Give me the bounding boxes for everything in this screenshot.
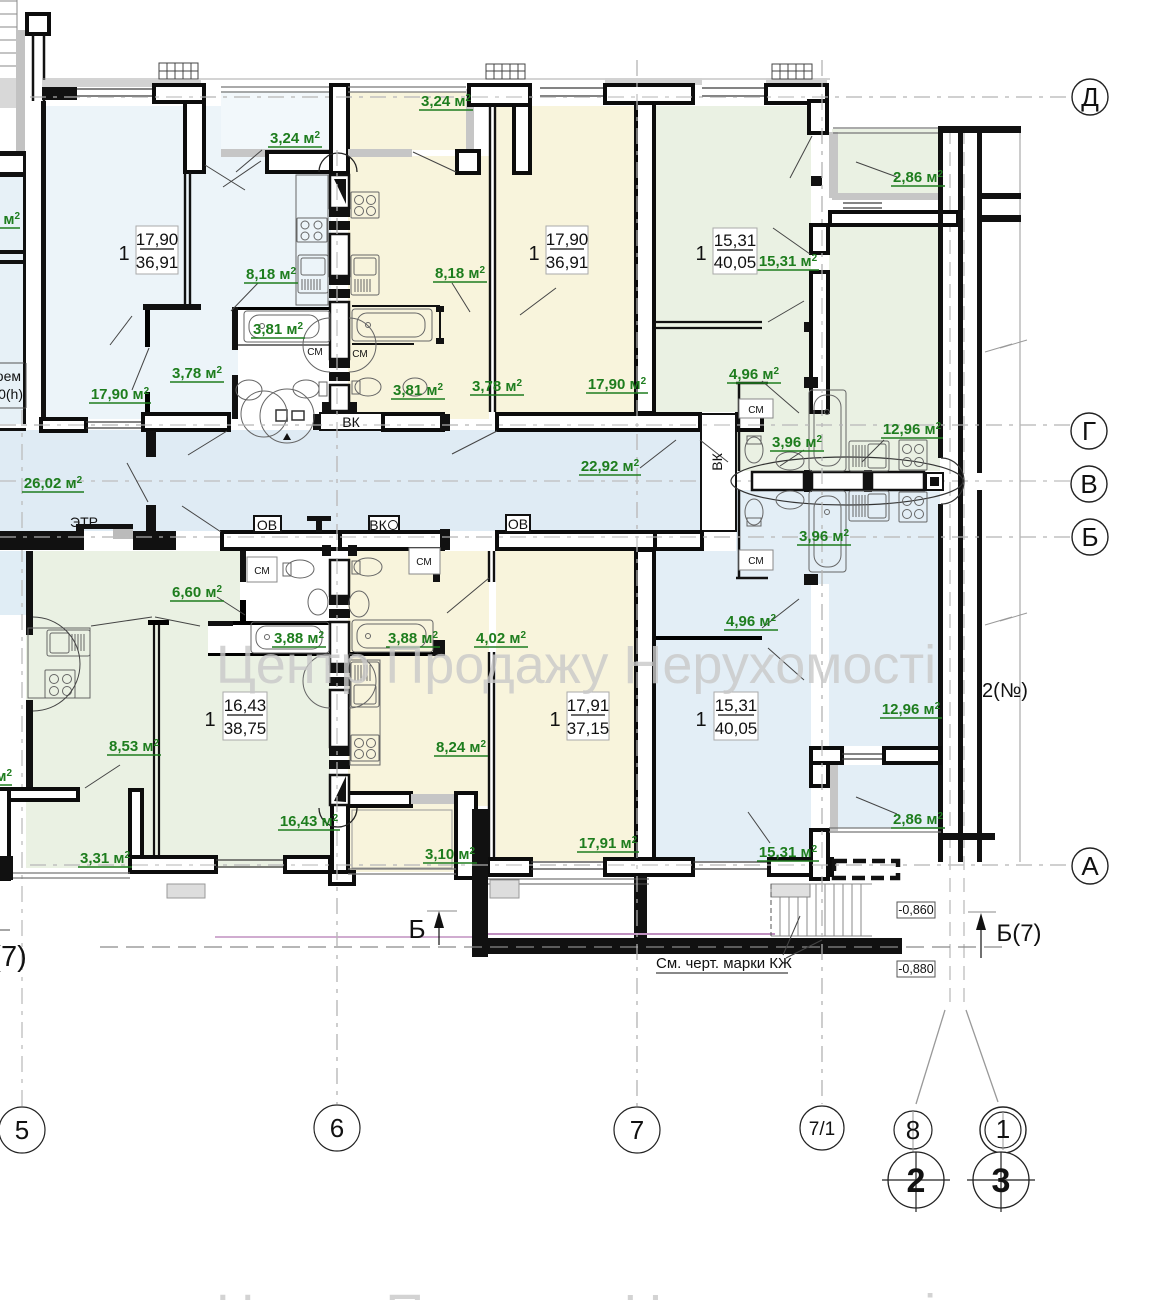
wall under balcony 2,86: [830, 212, 958, 225]
corridor entry door lines apt1: [86, 422, 143, 428]
svg-text:3,96 м2: 3,96 м2: [799, 528, 849, 545]
svg-text:1: 1: [549, 709, 560, 731]
corridor fill: [0, 430, 737, 531]
apt1 balcony left wall: [185, 102, 204, 172]
bathtub apt1: [244, 311, 330, 342]
svg-text:ОВ: ОВ: [257, 517, 277, 533]
balcony 2,86 lower bottom rail: [829, 828, 941, 832]
corridor top wall seg2: [143, 414, 229, 430]
axis G overlay: [0, 424, 1072, 426]
green bath stub: [804, 377, 818, 388]
lower-mid CM wall stub: [433, 552, 440, 582]
toilet lower-left apt: [283, 560, 314, 578]
grid circle 7/1: [800, 1106, 844, 1150]
lower-mid yellow left part: [348, 551, 489, 806]
stair stub bar bottom: [982, 215, 1021, 222]
axis 6 vertical: [336, 150, 338, 1104]
left edge sliver blue mid: [0, 551, 26, 615]
svg-text:См. черт. марки КЖ: См. черт. марки КЖ: [656, 955, 792, 972]
neighbour room divider a: [0, 250, 25, 254]
grid circle 1 double: [980, 1107, 1026, 1153]
stair wall 3: [977, 133, 982, 473]
shaft lower diagonal mark: [334, 776, 346, 802]
svg-text:ЭТР: ЭТР: [70, 514, 98, 530]
lower-left bathroom white: [208, 621, 330, 656]
corridor top wall seg3: [313, 414, 323, 430]
svg-text:12,96 м2: 12,96 м2: [882, 701, 941, 718]
outer thin boundary line right: [1019, 126, 1021, 862]
grid circle 3 large: [973, 1152, 1029, 1208]
svg-text:ВК: ВК: [369, 517, 387, 533]
sink apt1 kitchen: [298, 255, 328, 293]
shaft door oval: [731, 457, 963, 505]
left wall top stub: [27, 14, 49, 34]
svg-text:Г: Г: [1082, 416, 1096, 446]
corridor bottom door stub: [440, 529, 450, 550]
corridor top wall seg5: [497, 414, 700, 430]
top-left stair ladder hatch: [0, 0, 17, 108]
green apt right wall upper: [809, 101, 827, 133]
door leaf green room: [768, 301, 804, 322]
lower-right room right wall upper: [811, 748, 828, 786]
axis B2 overlay: [0, 536, 1072, 538]
stair wall 3 lower: [977, 490, 982, 862]
svg-text:17,90: 17,90: [546, 230, 589, 249]
info box apt6: [695, 692, 758, 740]
lower-right room right wall lower: [811, 830, 828, 879]
bottom LL window: [216, 860, 285, 867]
stair wall 1 lower: [938, 504, 943, 862]
terrace top line: [488, 879, 649, 884]
apt1 top wall left seg: [42, 87, 77, 100]
door leaf corridor top gap: [452, 431, 497, 454]
wall yellow/blue rooms lower: [636, 550, 654, 859]
lower-left hall divider lower: [240, 600, 246, 621]
leader 8,18 right: [452, 283, 470, 312]
svg-text:Б: Б: [1081, 522, 1098, 552]
info box apt3: [695, 228, 757, 274]
lower-left kitchen left wall: [26, 551, 33, 635]
door leaf green kitchen: [773, 228, 810, 254]
central shaft lower black dividers: [329, 596, 350, 769]
leader 22,92 a: [640, 440, 676, 468]
basin green apt: [776, 452, 804, 470]
svg-text:(7): (7): [0, 941, 27, 973]
balcony Y glazing top: [348, 87, 466, 92]
neighbour wall horizontal b: [0, 172, 26, 177]
leader 4,96 bottom: [762, 599, 799, 628]
svg-text:1: 1: [118, 243, 129, 265]
svg-text:22,92 м2: 22,92 м2: [581, 458, 640, 475]
hatch above T wall: [605, 78, 702, 85]
shaft side arcs lower: [303, 654, 330, 708]
apt1 bath wall vertical: [232, 307, 238, 350]
svg-text:37,15: 37,15: [567, 719, 610, 738]
corridor bottom wall seg5: [497, 532, 657, 549]
svg-text:Б: Б: [408, 914, 425, 944]
sink lower-mid kitchen: [351, 662, 379, 707]
svg-text:8,18 м2: 8,18 м2: [435, 265, 485, 282]
svg-text:1: 1: [204, 709, 215, 731]
svg-text:6: 6: [330, 1113, 344, 1143]
apt1 kitchen top wall chunk: [267, 152, 331, 172]
apt1 bath divider: [238, 344, 331, 346]
window box green: [772, 64, 812, 79]
apt1 top wall right seg: [154, 85, 204, 102]
apt1 interior blue: [46, 106, 331, 419]
lower-right apt partition 4,96: [656, 636, 762, 640]
sink lower-left kitchen: [47, 630, 90, 656]
door leaf corridor left bottom: [182, 506, 221, 532]
bottom-left section tick: [0, 929, 10, 931]
lower-left 3,31 left wall: [0, 789, 9, 879]
window kitchen upper: [843, 203, 882, 208]
ETR niche wall: [76, 524, 84, 550]
window box top-left: [159, 63, 198, 79]
yellow bath door jambs: [436, 306, 444, 312]
stove lower-left kitchen: [45, 670, 75, 698]
svg-text:3,78 м2: 3,78 м2: [472, 378, 522, 395]
axis 7/1 overlay: [821, 60, 823, 1104]
axis 7 overlay: [636, 60, 638, 1106]
stair bottom closure: [938, 833, 995, 840]
vestibule door arc apt1: [260, 389, 314, 443]
vestibule door gap leaf rects: [276, 410, 304, 421]
lower-left kitchen left wall lower: [26, 700, 33, 789]
OV box right: [506, 515, 530, 532]
stair stub bar top: [982, 193, 1021, 199]
apt1 bath wall vertical lower: [232, 375, 238, 419]
balcony yellow 3,10: [350, 806, 456, 872]
grid circle G: [1071, 413, 1107, 449]
svg-text:26,02 м2: 26,02 м2: [24, 475, 83, 492]
door leaf diagonals: [85, 136, 897, 958]
axis 6 overlay: [336, 150, 338, 1104]
door leaf lower-right room: [768, 648, 804, 680]
lower-left bath jamb left: [208, 621, 233, 626]
bathtub lower-mid yellow: [352, 620, 433, 652]
corridor bottom wall seg1: [0, 531, 76, 550]
stair left wall top: [938, 126, 943, 216]
basin lower-right apt: [776, 491, 804, 509]
window green room top: [702, 88, 766, 96]
sink green kitchen: [849, 441, 889, 471]
axis Б horizontal: [0, 536, 1072, 538]
balcony 3,10 right wall: [456, 793, 476, 878]
bathtub yellow apt upper: [352, 309, 432, 341]
svg-text:7/1: 7/1: [809, 1119, 835, 1140]
shaft side arcs upper: [303, 318, 330, 372]
door arc lower-left kitchen: [33, 617, 80, 711]
grid circle B: [1072, 519, 1108, 555]
terrace inner wall vertical: [634, 876, 647, 938]
svg-text:4,96 м2: 4,96 м2: [729, 366, 779, 383]
corridor top wall seg4: [383, 414, 443, 430]
svg-text:40,05: 40,05: [715, 719, 758, 738]
lower-left room wall top tick: [148, 620, 169, 625]
lower-left 3,31 right wall: [130, 790, 142, 870]
room 15,31 bottom wall chunk: [769, 859, 832, 875]
counter lower-mid kitchen: [350, 660, 380, 765]
stove yellow kitchen upper: [351, 192, 379, 218]
door leaf apt1 balcony: [223, 161, 261, 187]
balcony blue 2,86 lower: [838, 765, 940, 828]
svg-text:СМ: СМ: [307, 347, 322, 358]
balcony Y right hatch strip: [466, 89, 474, 156]
svg-text:16,43 м2: 16,43 м2: [280, 813, 339, 830]
svg-text:15,31 м2: 15,31 м2: [759, 844, 818, 861]
corridor stair door arc: [941, 458, 964, 504]
axis 7/1 vertical: [821, 60, 823, 1104]
leader 8,18 left: [231, 283, 258, 311]
grid circle V: [1071, 466, 1107, 502]
grid circle 2 large: [888, 1152, 944, 1208]
VK box corridor top: [320, 413, 383, 430]
OV box left: [254, 516, 281, 532]
svg-text:2,86 м2: 2,86 м2: [893, 169, 943, 186]
svg-text:1: 1: [695, 243, 706, 265]
svg-text:СМ: СМ: [416, 557, 431, 568]
kitchen lower wall left chunk: [811, 748, 842, 763]
balcony yellow 3,24: [348, 92, 466, 150]
basin lower-left apt: [308, 589, 328, 615]
leader 3,24 left: [236, 150, 262, 172]
axis 7 vertical: [636, 60, 638, 1106]
room 17,91 bottom wall left chunk: [488, 859, 531, 875]
svg-text:17,90 м2: 17,90 м2: [91, 386, 150, 403]
shaft left wall upper: [331, 85, 348, 173]
svg-text:15,31 м2: 15,31 м2: [759, 253, 818, 270]
VK shaft box right: [701, 414, 736, 531]
balcony 3,10 top hatch: [411, 794, 456, 804]
toilet apt1: [293, 380, 327, 398]
balcony 3,10 bottom sill: [348, 869, 456, 874]
svg-text:8,24 м2: 8,24 м2: [436, 739, 486, 756]
leader line to circle 8: [916, 1010, 945, 1104]
axis Д horizontal: [30, 96, 1072, 98]
svg-text:Д: Д: [1081, 82, 1099, 112]
sink yellow kitchen upper: [351, 255, 379, 295]
lower-left 3,31 top wall: [9, 789, 78, 800]
grid circle A: [1072, 848, 1108, 884]
shaft row end box: [926, 473, 943, 490]
apt1 kitchen counter: [296, 175, 328, 305]
kitchen blue column lower-right: [829, 584, 940, 746]
entrance stairs treads: [771, 884, 872, 936]
apt1 room step wall: [143, 304, 201, 310]
apt1 room right wall: [185, 172, 190, 306]
toilet lower-right apt: [745, 499, 763, 526]
axis 8 vertical elevator dashes: [949, 130, 951, 1010]
svg-text:40,05: 40,05: [714, 253, 757, 272]
elevation -0,880: [897, 961, 935, 977]
central shaft upper column: [330, 175, 349, 411]
stair wall 2: [958, 133, 963, 862]
kitchen lower wall right chunk: [884, 748, 940, 763]
left wall insulation hatch: [0, 78, 17, 108]
3,31 bottom glazing: [13, 873, 130, 878]
door leaf Y balcony: [413, 152, 456, 172]
room yellow 17,90: [496, 106, 637, 419]
axis А horizontal: [30, 864, 1072, 866]
corridor top wall seg1: [41, 419, 86, 431]
toilet green apt: [745, 436, 763, 463]
balcony 3,10 top wall black: [348, 793, 411, 806]
info box apt2: [528, 226, 588, 274]
frame around partial texts: [0, 363, 26, 408]
central shaft lower column: [330, 560, 349, 805]
bath block green upper-right: [736, 374, 940, 471]
svg-text:ВК: ВК: [709, 452, 725, 470]
svg-text:СМ: СМ: [352, 349, 367, 360]
balcony 2,86 bottom hatch: [832, 193, 940, 200]
magenta conduit line left: [215, 936, 472, 938]
shaft row dividers: [804, 470, 872, 492]
shaft diagonal mark: [334, 179, 346, 204]
apt1 room thin wall lower: [145, 310, 150, 347]
window well hatch 2: [490, 880, 519, 898]
basin lower-mid apt: [349, 591, 369, 617]
svg-text:4,96 м2: 4,96 м2: [726, 613, 776, 630]
svg-text:7: 7: [630, 1115, 644, 1145]
terrace left wall vertical: [472, 809, 488, 957]
stove lower-right kitchen: [899, 492, 927, 522]
toilet lower-mid apt: [352, 558, 382, 576]
svg-text:17,91: 17,91: [567, 696, 610, 715]
wall chunk yellow top: [469, 85, 530, 105]
bottom retaining wall: [472, 938, 902, 954]
stair top wall: [940, 126, 1021, 133]
grid circle 7: [614, 1107, 660, 1153]
balcony Y bottom hatch sill: [348, 149, 412, 157]
svg-text:38,75: 38,75: [224, 719, 267, 738]
apt1 room thin wall lower2: [145, 392, 150, 419]
small black squares below lower VK: [322, 545, 331, 556]
balcony 3,10 left wall: [332, 794, 348, 878]
leader 26,02: [127, 463, 148, 502]
corridor bottom wall seg4: [340, 532, 443, 549]
room yellow 17,91: [496, 551, 637, 861]
svg-text:СМ: СМ: [748, 556, 763, 567]
info box apt1: [118, 226, 178, 274]
svg-text:3,10 м2: 3,10 м2: [425, 846, 475, 863]
leader 3,31: [85, 765, 120, 788]
svg-text:12,96 м2: 12,96 м2: [883, 421, 942, 438]
svg-text:6,60 м2: 6,60 м2: [172, 584, 222, 601]
lower-right bath bottom wall: [736, 490, 768, 578]
room yellow 17,90 left wall upper: [490, 106, 495, 412]
lower-left bath top wall: [208, 621, 330, 625]
svg-text:Б(7): Б(7): [996, 920, 1041, 947]
info box apt5: [549, 692, 609, 740]
svg-text:оем: оем: [0, 368, 21, 384]
svg-text:17,90: 17,90: [136, 230, 179, 249]
wall stub balcony-kitchen yellow: [457, 151, 479, 173]
window well hatch 1: [167, 884, 205, 898]
bottom wall LL seg1: [130, 857, 216, 872]
balcony 2,86 top rail: [833, 128, 940, 133]
svg-text:3: 3: [992, 1162, 1011, 1200]
svg-text:ВК: ВК: [342, 414, 360, 430]
svg-text:3,81 м2: 3,81 м2: [253, 321, 303, 338]
green apt room door jamb: [804, 322, 812, 332]
kitchen lower window: [842, 754, 884, 759]
svg-text:СМ: СМ: [254, 566, 269, 577]
kitchen green column upper-right: [829, 225, 940, 471]
bottom wall LL seg2: [285, 857, 330, 872]
wall below top stub double line: [33, 34, 44, 101]
grid circle D: [1072, 79, 1108, 115]
axis D overlay: [30, 96, 1072, 98]
elevation -0,860: [897, 902, 935, 918]
info box apt4: [204, 692, 267, 740]
VK-O box: [369, 516, 399, 532]
svg-text:15,31: 15,31: [714, 231, 757, 250]
shaft row end icon: [930, 477, 939, 486]
leader 2,86 top: [856, 162, 897, 177]
leader 22,92 b: [700, 440, 728, 462]
window box yellow: [486, 64, 525, 79]
svg-text:8: 8: [906, 1115, 920, 1145]
room 17,91 bottom wall right chunk: [605, 859, 693, 875]
T stub corridor bottom: [307, 516, 331, 532]
svg-text:16,43: 16,43: [224, 696, 267, 715]
room 17,91 bottom window: [531, 862, 605, 869]
svg-text:1: 1: [695, 709, 706, 731]
axis В horizontal: [0, 480, 1072, 482]
left edge neighbour rooms blue: [0, 177, 23, 424]
neighbour room divider b: [0, 260, 25, 264]
ETR niche top: [84, 524, 133, 529]
svg-text:3,81 м2: 3,81 м2: [393, 382, 443, 399]
lower-mid bath bottom jamb: [433, 640, 445, 656]
stove green kitchen: [899, 440, 927, 470]
door leaf corridor bottom gap: [447, 578, 489, 613]
room yellow 17,91 left wall: [489, 652, 494, 859]
balcony 2,86 lower left hatch: [830, 765, 838, 831]
leader 6,60: [217, 597, 245, 615]
leader KZh a: [783, 916, 800, 955]
green apt hall/kitchen wall: [811, 225, 828, 253]
basin apt1: [236, 380, 262, 400]
break mark lower on boundary: [985, 613, 1027, 625]
corridor jamb stub top: [146, 431, 156, 457]
neighbour wall horizontal a: [0, 151, 26, 156]
apt1 bath top wall: [238, 307, 331, 310]
leader 15,31 bottom: [748, 812, 770, 843]
counter lower-left kitchen: [28, 628, 90, 698]
svg-text:-0,880: -0,880: [898, 962, 933, 976]
window yellow room top: [540, 88, 605, 96]
room+hall lower-right blue: [655, 551, 811, 861]
lower-left apartment green: [26, 551, 330, 868]
bath door circle apt1: [241, 391, 287, 437]
vestibule arrow: [283, 433, 291, 440]
svg-text:3,96 м2: 3,96 м2: [772, 434, 822, 451]
corridor bottom wall seg6: [655, 532, 702, 549]
green apt hall/kitchen wall lower: [811, 272, 828, 412]
apt1 top window: [77, 89, 152, 96]
leader 17,90 left: [110, 316, 132, 345]
CM boxes upper right: [739, 399, 773, 418]
svg-text:1: 1: [996, 1114, 1010, 1144]
axis Г horizontal: [0, 424, 1072, 426]
leader 4,96 top: [762, 381, 799, 413]
svg-text:50(h): 50(h): [0, 386, 23, 402]
balcony 3,10 corner bottom: [330, 872, 354, 884]
apt1 bathroom white: [238, 310, 331, 419]
door leaf lower-left room: [91, 617, 152, 626]
